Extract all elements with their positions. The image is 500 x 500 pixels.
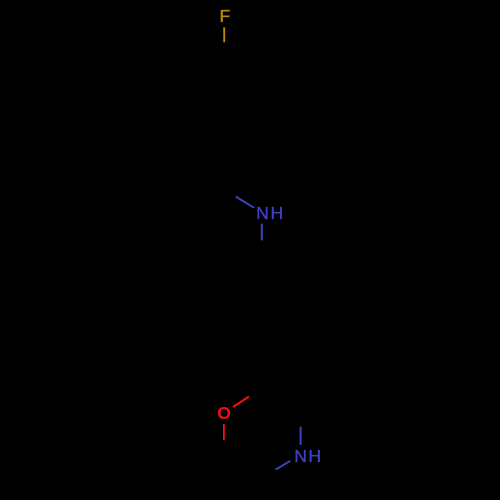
svg-text:H: H	[270, 203, 283, 223]
svg-text:N: N	[256, 203, 269, 223]
svg-text:H: H	[308, 446, 321, 466]
svg-text:N: N	[294, 446, 307, 466]
svg-text:O: O	[217, 403, 231, 423]
svg-text:F: F	[220, 6, 231, 26]
